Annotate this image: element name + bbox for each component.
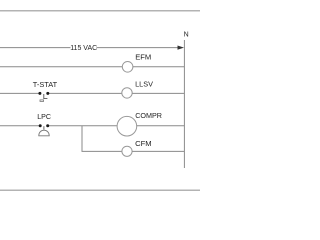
coil LLSV — [122, 88, 132, 98]
pressure switch LPC dome symbol — [43, 126, 45, 129]
svg-text:LPC: LPC — [37, 113, 51, 121]
wire: 115 VAC rung left segment — [0, 47, 71, 49]
wire: LLSV rung right — [132, 92, 184, 94]
wire: branch down to CFM rung — [82, 126, 122, 152]
thermostat contact T-STAT left terminal — [38, 92, 41, 95]
top border line — [0, 10, 200, 12]
wire: LLSV rung mid — [48, 92, 122, 94]
wire: neutral bus vertical — [183, 40, 185, 168]
bottom border line — [0, 189, 200, 191]
coil EFM — [122, 62, 133, 73]
wire: COMPR rung right — [137, 125, 185, 127]
svg-text:T-STAT: T-STAT — [33, 80, 58, 89]
svg-text:115 VAC: 115 VAC — [70, 45, 97, 52]
motor CFM — [122, 146, 132, 156]
pressure switch LPC left terminal — [39, 124, 42, 127]
wire: EFM rung right — [133, 66, 185, 68]
wire: EFM rung left — [0, 66, 122, 68]
wire: 115 VAC rung right segment — [97, 47, 180, 49]
thermostat element symbol — [44, 94, 48, 99]
thermostat contact T-STAT right terminal — [46, 92, 49, 95]
svg-text:LLSV: LLSV — [135, 79, 153, 88]
svg-text:CFM: CFM — [135, 139, 151, 148]
svg-text:N: N — [184, 32, 189, 39]
wire: COMPR rung left — [0, 125, 40, 127]
svg-text:COMPR: COMPR — [135, 111, 162, 120]
svg-text:EFM: EFM — [135, 53, 151, 62]
arrowhead into N bus — [178, 46, 185, 50]
motor COMPR — [117, 116, 137, 136]
wire: CFM rung right — [132, 150, 184, 152]
wire: COMPR rung mid — [48, 125, 118, 127]
wire: LLSV rung left — [0, 92, 40, 94]
pressure switch LPC right terminal — [46, 124, 49, 127]
